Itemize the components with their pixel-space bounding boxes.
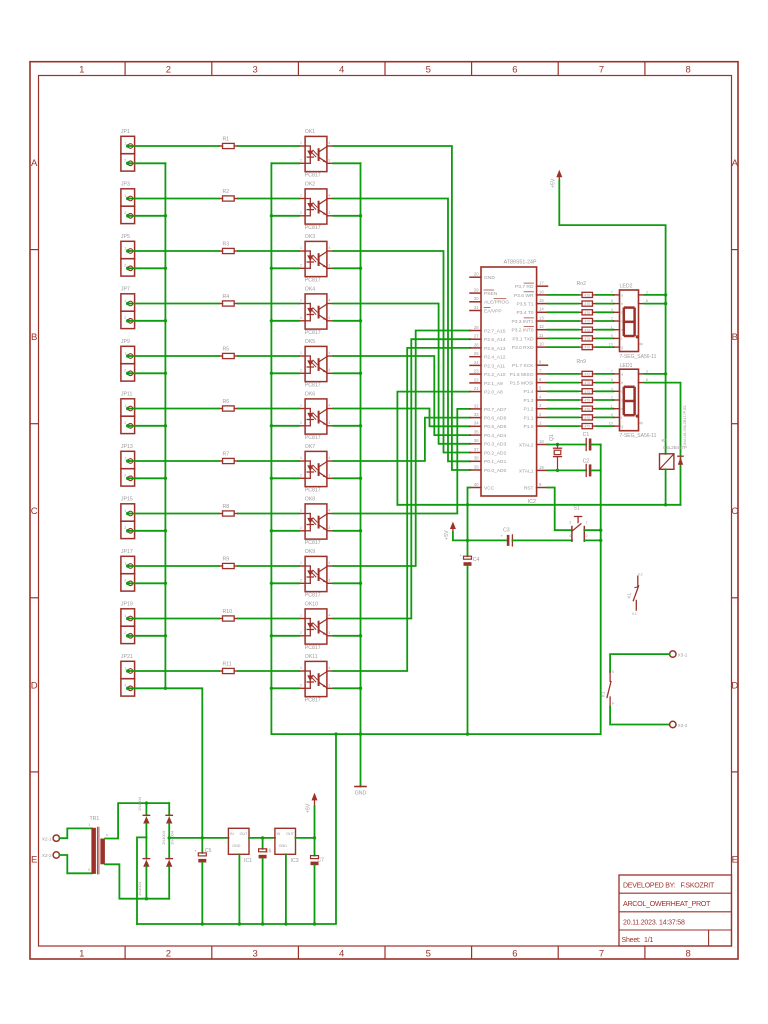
wire R4 to OK4 pin1 [238, 303, 299, 305]
svg-text:GND: GND [355, 791, 367, 797]
svg-text:1: 1 [79, 65, 84, 76]
svg-text:B: B [31, 332, 37, 343]
svg-text:3: 3 [328, 159, 330, 163]
wire OK2 pin4 to IC P0.1 [333, 199, 470, 462]
wire JP21 pin1 to R11 [129, 670, 220, 672]
resistor R8 [219, 504, 238, 516]
svg-text:f: f [621, 337, 622, 341]
svg-text:P0.1_AD1: P0.1_AD1 [484, 459, 507, 465]
svg-text:1: 1 [300, 509, 302, 513]
wire OK4 pin3 to emitter bus [333, 319, 362, 322]
wire OK1 pin3 to emitter bus [333, 162, 360, 164]
wire OK7 pin4 to IC P0.6 [333, 418, 470, 461]
wire OK3 pin4 to IC P0.2 [333, 251, 470, 453]
svg-text:P3.6 WR: P3.6 WR [514, 293, 534, 299]
svg-text:4: 4 [328, 509, 330, 513]
connector JP21 [121, 654, 135, 696]
svg-text:9: 9 [106, 834, 108, 838]
svg-text:25: 25 [474, 351, 479, 356]
svg-text:IN: IN [230, 832, 234, 836]
svg-text:20.11.2023. 14:37:58: 20.11.2023. 14:37:58 [623, 920, 685, 927]
svg-text:P3.2 INT0: P3.2 INT0 [511, 328, 533, 334]
svg-text:JP19: JP19 [121, 602, 133, 608]
svg-text:7: 7 [611, 291, 613, 295]
svg-text:1: 1 [300, 666, 302, 670]
supply +5V arrow middle [444, 522, 456, 540]
svg-text:OK9: OK9 [305, 549, 315, 555]
svg-text:3: 3 [328, 264, 330, 268]
wire OK2 pin3 to emitter bus [333, 214, 362, 217]
svg-text:27: 27 [474, 334, 479, 339]
svg-text:P0.0_AD0: P0.0_AD0 [484, 468, 507, 474]
resistor R4 [219, 294, 238, 306]
svg-text:2: 2 [124, 316, 126, 320]
wire JP13 pin1 to R7 [129, 460, 220, 462]
wire OK10 pin4 to IC P2.6 [333, 339, 470, 618]
svg-text:2: 2 [300, 369, 302, 373]
svg-text:C1: C1 [583, 432, 590, 438]
svg-text:21: 21 [474, 386, 479, 391]
svg-text:P0.4_AD4: P0.4_AD4 [484, 433, 507, 439]
svg-text:2: 2 [300, 526, 302, 530]
svg-text:ALE/PROG: ALE/PROG [484, 300, 509, 306]
svg-text:2: 2 [300, 684, 302, 688]
wire +5V arrow to rail [314, 806, 316, 838]
svg-text:4: 4 [328, 141, 330, 145]
relay contact K1 output [600, 670, 614, 707]
wire Rn2 to LED2 pin [596, 320, 613, 322]
wire OK6 pin3 to emitter bus [333, 424, 362, 427]
wire IC P1.0 to Rn9 [548, 425, 579, 427]
svg-text:8: 8 [646, 378, 648, 382]
svg-text:4: 4 [328, 299, 330, 303]
svg-text:OK2: OK2 [305, 182, 315, 188]
svg-text:470: 470 [584, 311, 590, 315]
svg-text:7-SEG_SA56-11: 7-SEG_SA56-11 [620, 354, 657, 360]
wire IC P3.6 to Rn2 [548, 294, 579, 296]
wire IC P2.0 to +5V rail [397, 392, 470, 505]
wire Rn9 to LED1 pin [596, 382, 613, 384]
svg-text:35: 35 [474, 430, 479, 435]
svg-text:P2.6_A14: P2.6_A14 [484, 337, 506, 343]
svg-text:P2.4_A12: P2.4_A12 [484, 355, 506, 361]
wire JP9 pin1 to R5 [129, 355, 220, 357]
svg-text:470: 470 [584, 337, 590, 341]
svg-text:470: 470 [584, 320, 590, 324]
svg-text:R2: R2 [223, 189, 230, 195]
wire OK11 pin4 to IC P2.5 [333, 348, 470, 671]
svg-text:OK8: OK8 [305, 497, 315, 503]
svg-text:1: 1 [124, 614, 126, 618]
svg-text:470: 470 [584, 294, 590, 298]
connector JP1 [121, 129, 135, 171]
svg-text:2: 2 [124, 474, 126, 478]
svg-text:7: 7 [599, 949, 604, 960]
svg-text:7: 7 [611, 370, 613, 374]
svg-text:b: b [621, 302, 623, 306]
wire LED2 anode pins to bus [645, 295, 666, 304]
wire JP11 pin2 to bus [129, 424, 168, 427]
svg-text:1: 1 [124, 666, 126, 670]
svg-text:4: 4 [328, 666, 330, 670]
relay coil K1 G6L2B417P [660, 438, 687, 470]
svg-text:g: g [621, 425, 623, 429]
wire bus JP pins2 vertical [164, 163, 166, 688]
svg-text:4: 4 [569, 534, 571, 538]
svg-text:R10: R10 [223, 609, 233, 615]
frame column numbers top [79, 65, 691, 76]
svg-text:1: 1 [124, 404, 126, 408]
diode D5 1N4004 bridge [166, 830, 175, 898]
svg-text:IC3: IC3 [291, 858, 299, 864]
svg-text:3: 3 [328, 421, 330, 425]
svg-text:P2.7_A15: P2.7_A15 [484, 328, 506, 334]
crystal Q1 [549, 434, 562, 470]
wire ground rail PSU [137, 734, 336, 926]
wire Rn9 to LED1 pin [596, 399, 613, 401]
svg-text:2: 2 [124, 526, 126, 530]
svg-text:26: 26 [474, 342, 479, 347]
wire C1 to ground stem [591, 444, 600, 446]
wire OK9 pin4 to IC P2.7 [333, 331, 470, 567]
svg-text:28: 28 [474, 325, 479, 330]
capacitor C3 [501, 528, 513, 546]
wire IC P1.3 to Rn9 [548, 399, 579, 401]
svg-text:32: 32 [474, 403, 479, 408]
svg-text:3: 3 [569, 520, 571, 524]
svg-text:1: 1 [300, 614, 302, 618]
svg-text:7-SEG_SA56-11: 7-SEG_SA56-11 [620, 433, 657, 439]
svg-text:JP15: JP15 [121, 497, 133, 503]
svg-text:8: 8 [646, 299, 648, 303]
svg-text:JP13: JP13 [121, 444, 133, 450]
svg-text:39: 39 [474, 464, 479, 469]
wire R2 to OK2 pin1 [238, 198, 299, 200]
svg-text:TR1: TR1 [90, 816, 100, 822]
connector X3-1 [670, 651, 688, 658]
capacitor C6 [259, 838, 272, 924]
connector JP13 [121, 444, 135, 486]
resistor R10 [219, 609, 238, 621]
svg-text:PC817: PC817 [305, 645, 321, 651]
diode D4 1N4004 bridge [161, 803, 172, 845]
svg-text:5: 5 [88, 868, 90, 872]
svg-text:2: 2 [611, 396, 613, 400]
svg-text:1: 1 [124, 561, 126, 565]
wire IC P3.5 to Rn2 [548, 303, 579, 305]
wire Rn9 to LED1 pin [596, 408, 613, 410]
wire IC1 out to IC3 [249, 836, 275, 839]
svg-text:2: 2 [166, 949, 171, 960]
title block [619, 875, 732, 946]
wire OK8 pin2 to cathode bus [270, 529, 300, 532]
wire Rn2 to LED2 pin [596, 337, 613, 339]
microcontroller IC2 AT89S51-24P [470, 260, 548, 505]
wire R9 to OK9 pin1 [238, 565, 299, 567]
svg-text:A: A [732, 158, 739, 169]
supply +5V arrow top [551, 170, 563, 188]
wire IC XTAL1 to C2 [548, 469, 587, 472]
svg-text:23: 23 [474, 369, 479, 374]
wire IC VCC to rail and C4 [466, 488, 470, 557]
svg-text:3: 3 [252, 65, 257, 76]
svg-text:1: 1 [300, 351, 302, 355]
wire R8 to OK8 pin1 [238, 513, 299, 515]
svg-text:AT89S51-24P: AT89S51-24P [504, 260, 537, 266]
svg-text:JP21: JP21 [121, 654, 133, 660]
svg-text:E: E [31, 854, 37, 865]
capacitor C4 [460, 553, 480, 566]
connector JP7 [121, 287, 135, 329]
svg-text:1: 1 [124, 509, 126, 513]
wire C4 to ground rail [467, 566, 469, 734]
svg-text:OUT: OUT [240, 832, 249, 836]
capacitor C1 [583, 432, 592, 451]
wire IC P3.4 to Rn2 [548, 311, 579, 313]
svg-text:1: 1 [300, 246, 302, 250]
wire Rn2 to LED2 pin [596, 311, 613, 313]
svg-text:37: 37 [474, 447, 479, 452]
diode D3 1N4004 bridge [137, 837, 150, 898]
svg-text:470: 470 [584, 302, 590, 306]
wire OK5 pin4 to IC P0.4 [333, 356, 470, 435]
svg-text:0.2: 0.2 [638, 572, 643, 576]
wire OK9 pin3 to emitter bus [333, 582, 362, 585]
svg-text:1: 1 [611, 404, 613, 408]
svg-text:Q1: Q1 [549, 434, 555, 441]
connector JP11 [121, 392, 135, 434]
svg-text:31: 31 [474, 305, 479, 310]
svg-text:470: 470 [584, 407, 590, 411]
svg-text:PSEN: PSEN [484, 291, 498, 297]
svg-text:2: 2 [124, 159, 126, 163]
svg-text:OK1: OK1 [305, 129, 315, 135]
wire JP19 pin2 to bus [129, 634, 168, 637]
svg-text:2: 2 [300, 421, 302, 425]
svg-text:36: 36 [474, 438, 479, 443]
svg-text:2: 2 [300, 264, 302, 268]
svg-text:4: 4 [328, 456, 330, 460]
svg-text:29: 29 [474, 288, 479, 293]
svg-text:2: 2 [124, 579, 126, 583]
wire JP15 pin2 to bus [129, 529, 168, 532]
svg-text:P3.5 T1: P3.5 T1 [516, 302, 533, 308]
svg-text:470: 470 [584, 416, 590, 420]
wire Rn9 to LED1 pin [596, 373, 613, 375]
svg-text:P3.0 RXD: P3.0 RXD [512, 345, 534, 351]
wire OK5 pin3 to emitter bus [333, 372, 362, 375]
svg-text:4: 4 [339, 65, 344, 76]
7-segment display LED1 SA56-11 [609, 363, 657, 439]
connector JP17 [121, 549, 135, 591]
wire bridge negative to ground rail [137, 837, 146, 924]
optocoupler OK5 PC817 [299, 339, 333, 389]
wire IC P3.2 to Rn2 [548, 329, 579, 331]
svg-text:P1.7 SCK: P1.7 SCK [512, 363, 534, 369]
wire X2-1 to transformer [60, 828, 92, 838]
wire C2 to ground stem [591, 469, 600, 471]
svg-text:2: 2 [124, 369, 126, 373]
wire IC RST to switch [548, 488, 572, 531]
svg-text:3: 3 [328, 684, 330, 688]
svg-text:0.1: 0.1 [632, 612, 637, 616]
optocoupler OK4 PC817 [299, 287, 333, 337]
svg-text:1: 1 [586, 520, 588, 524]
wire OK8 pin3 to emitter bus [333, 529, 362, 532]
svg-text:1: 1 [124, 351, 126, 355]
wire IC P1.2 to Rn9 [548, 408, 579, 410]
svg-text:X2-2: X2-2 [42, 853, 52, 858]
relay contact K1 spare [627, 572, 643, 616]
svg-text:1: 1 [300, 299, 302, 303]
svg-text:PC817: PC817 [305, 330, 321, 336]
svg-text:P1.6 MISO: P1.6 MISO [510, 372, 534, 378]
svg-text:DEVELOPED BY: F.SKOZRIT: DEVELOPED BY: F.SKOZRIT [623, 883, 715, 890]
wire OK7 pin3 to emitter bus [333, 477, 362, 480]
svg-text:PC817: PC817 [305, 173, 321, 179]
wire OK3 pin3 to emitter bus [333, 267, 362, 270]
svg-text:4: 4 [328, 246, 330, 250]
svg-text:JP11: JP11 [121, 392, 133, 398]
svg-text:R3: R3 [223, 241, 230, 247]
wire JP15 pin1 to R8 [129, 513, 220, 515]
svg-text:PC817: PC817 [305, 435, 321, 441]
svg-text:K1: K1 [627, 592, 632, 598]
svg-text:b: b [621, 381, 623, 385]
svg-text:470: 470 [584, 425, 590, 429]
svg-text:dp: dp [639, 342, 643, 346]
optocoupler OK10 PC817 [299, 602, 333, 652]
svg-text:dp: dp [639, 421, 643, 425]
svg-text:IC1: IC1 [244, 858, 252, 864]
svg-text:P1.0: P1.0 [523, 424, 533, 430]
svg-text:3: 3 [328, 369, 330, 373]
wire transformer secondary bottom to bridge [105, 864, 169, 900]
svg-text:OK7: OK7 [305, 444, 315, 450]
wire transformer secondary top to bridge [105, 801, 169, 838]
wire IC XTAL2 to C1 [548, 443, 587, 446]
svg-text:PC817: PC817 [305, 488, 321, 494]
svg-text:PC817: PC817 [305, 540, 321, 546]
wire IC P1.1 to Rn9 [548, 416, 579, 418]
resistor R2 [219, 189, 238, 201]
svg-text:6: 6 [512, 65, 517, 76]
connector JP5 [121, 234, 135, 276]
svg-text:33: 33 [474, 412, 479, 417]
svg-text:2: 2 [124, 421, 126, 425]
wire JP11 pin1 to R6 [129, 408, 220, 410]
svg-text:4: 4 [328, 561, 330, 565]
wire LED1 anode pin b to +5V rail [645, 383, 681, 505]
svg-text:3: 3 [328, 631, 330, 635]
svg-text:GND: GND [279, 844, 288, 848]
svg-text:P2.2_A10: P2.2_A10 [484, 372, 506, 378]
connector JP3 [121, 182, 135, 224]
svg-text:Rn2: Rn2 [577, 281, 587, 287]
svg-text:+5V: +5V [551, 178, 557, 188]
svg-text:3: 3 [646, 291, 648, 295]
svg-text:P3.3 INT1: P3.3 INT1 [511, 319, 533, 325]
svg-text:P3.1 TXD: P3.1 TXD [512, 336, 534, 342]
svg-text:LED1: LED1 [620, 363, 633, 369]
svg-text:1: 1 [300, 404, 302, 408]
svg-text:Sheet: 1/1: Sheet: 1/1 [622, 937, 654, 944]
frame column ticks [125, 62, 645, 959]
wire IC P1.4 to Rn9 [548, 390, 579, 392]
svg-text:R6: R6 [223, 399, 230, 405]
svg-text:R4: R4 [223, 294, 230, 300]
svg-text:1: 1 [124, 456, 126, 460]
wire R10 to OK10 pin1 [238, 618, 299, 620]
svg-text:1: 1 [300, 561, 302, 565]
resistor R11 [219, 661, 238, 673]
svg-text:2: 2 [300, 211, 302, 215]
svg-text:1N4004: 1N4004 [137, 796, 142, 811]
svg-text:JP9: JP9 [121, 339, 130, 345]
wire supply rail bridge to IC1 [169, 836, 228, 839]
svg-text:4: 4 [611, 308, 613, 312]
svg-text:5: 5 [426, 65, 431, 76]
svg-text:8: 8 [686, 65, 691, 76]
svg-text:7: 7 [599, 65, 604, 76]
wire OK3 pin2 to cathode bus [270, 267, 300, 270]
svg-text:1: 1 [88, 823, 90, 827]
optocoupler OK7 PC817 [299, 444, 333, 494]
wire IC P3.0 to Rn2 [548, 346, 579, 348]
wire OK11 pin2 to cathode bus [270, 687, 300, 690]
wire Rn2 to LED2 pin [596, 329, 613, 331]
resistor R3 [219, 241, 238, 253]
wire JP19 pin1 to R10 [129, 618, 220, 620]
svg-text:XTAL1: XTAL1 [519, 468, 534, 474]
wire Rn9 to LED1 pin [596, 425, 613, 427]
optocoupler OK11 PC817 [299, 654, 333, 704]
svg-text:C4: C4 [473, 557, 480, 563]
svg-text:S1: S1 [573, 506, 579, 512]
svg-text:R8: R8 [223, 504, 230, 510]
diode D2 1N4004 bridge [137, 796, 150, 837]
svg-text:4: 4 [328, 614, 330, 618]
svg-text:JP5: JP5 [121, 234, 130, 240]
svg-text:10: 10 [609, 343, 613, 347]
svg-text:EA/VPP: EA/VPP [484, 308, 502, 314]
wire crystal ground stem [271, 445, 600, 736]
wire OK9 pin2 to cathode bus [270, 582, 300, 585]
optocoupler OK8 PC817 [299, 497, 333, 547]
svg-text:GND: GND [232, 844, 241, 848]
svg-text:4: 4 [328, 404, 330, 408]
wire IC P3.3 to Rn2 [548, 320, 579, 322]
svg-text:X2-1: X2-1 [42, 836, 52, 841]
svg-text:OK6: OK6 [305, 392, 315, 398]
svg-text:GND: GND [484, 275, 495, 281]
svg-text:P3.4 T0: P3.4 T0 [516, 310, 533, 316]
svg-text:20: 20 [474, 272, 479, 277]
svg-text:R5: R5 [223, 346, 230, 352]
svg-text:P0.5_AD5: P0.5_AD5 [484, 424, 507, 430]
voltage regulator IC1 [228, 828, 252, 924]
wire Rn2 to LED2 pin [596, 294, 613, 296]
wire X3-1 to relay contact [610, 654, 670, 672]
wire OK2 pin2 to cathode bus [270, 214, 300, 217]
wire JP1 pin1 to R1 [129, 145, 220, 147]
svg-text:OK10: OK10 [305, 602, 318, 608]
svg-text:1: 1 [124, 246, 126, 250]
wire OK7 pin2 to cathode bus [270, 477, 300, 480]
wire JP9 pin2 to bus [129, 372, 168, 375]
svg-text:C2: C2 [583, 458, 590, 464]
svg-text:1: 1 [124, 194, 126, 198]
